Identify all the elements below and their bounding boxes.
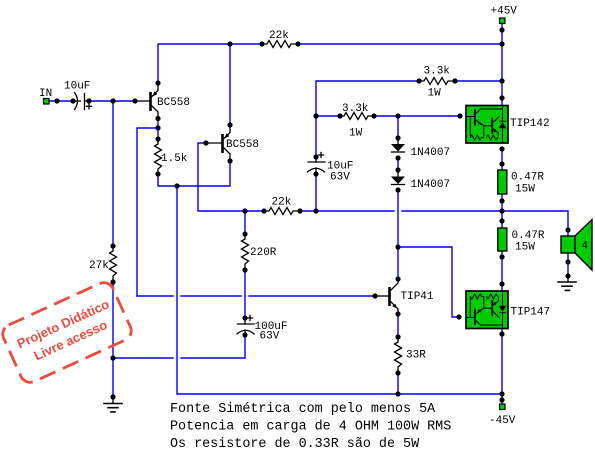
wire cap to Q1 base [89,100,135,102]
U1 T1 emitter [476,120,484,138]
svg-text:22k: 22k [269,30,289,42]
U1 T2 collector [493,116,500,123]
wire 10uF63V bottom to output [315,174,317,211]
wire D2 to TIP41 collector [397,190,399,279]
U2 internal resistor 1 [470,294,483,299]
node Q2 pins [227,122,232,127]
resistor R7 220R [242,234,249,270]
diode D1 triangle [391,144,405,152]
node output line dots [242,208,247,213]
node Q3 base [372,293,377,298]
svg-text:3.3k: 3.3k [424,66,451,78]
svg-text:4: 4 [582,241,589,253]
U2 left rise [469,297,471,318]
resistor R6 27k [110,246,117,282]
speaker LS1 box [561,236,575,253]
wire input to cap [49,100,73,102]
transistor Q2 collector [224,148,231,162]
transistor Q2 base bar [221,134,224,153]
wire diode D1 top lead [397,116,399,138]
svg-text:-45V: -45V [489,415,516,427]
svg-text:10uF: 10uF [64,81,90,93]
wire Q2 base to output line [198,143,264,211]
wire 33R to -45V rail [397,373,399,394]
transistor Q1 collector [152,106,159,119]
transistor Q2 emitter arrow (PNP) [224,133,229,138]
U2 diode bar [499,312,506,314]
node C2 pins [313,154,318,159]
speaker bottom ground stem [567,276,569,282]
capacitor C2 10uF 63V top lead [315,157,317,162]
U1 T2 arrow [493,129,497,133]
terminal IN green square [44,99,50,105]
transistor Q1 emitter [152,83,159,97]
capacitor C3 100uF 63V top lead [244,318,246,324]
U2 T2 emitter [493,297,498,306]
diode D2 cathode bar [392,184,405,186]
wire output y211 segment c [402,210,502,212]
svg-text:15W: 15W [515,184,535,196]
transistor Q2 BC558 base lead [206,142,221,144]
wire output node to 220R [244,211,246,234]
svg-text:Potencia em carga de 4 OHM 100: Potencia em carga de 4 OHM 100W RMS [170,420,451,435]
resistor R9 0.47R 15W body [498,170,507,194]
U1 diode bar [499,120,506,122]
svg-text:TIP41: TIP41 [401,291,434,303]
capacitor C1 lead right [85,100,90,102]
capacitor C1 plus sign [87,104,92,109]
transistor Q3 base bar [388,287,391,306]
node input dots [54,98,59,103]
U2 base entry [466,317,474,319]
svg-text:TIP142: TIP142 [510,118,550,130]
svg-text:Os resistore de 0.33R são de 5: Os resistore de 0.33R são de 5W [170,437,420,449]
svg-text:15W: 15W [515,242,535,254]
transistor Q1 BC558 base lead [135,100,149,102]
wire node A down x177 to -45V rail y394 [177,186,502,394]
U2 T1 collector [476,321,503,326]
wire TIP147 collector to -45V [501,329,503,404]
svg-text:1N4007: 1N4007 [411,179,451,191]
DARLINGTON U1 TIP142 box [466,106,508,144]
wire TIP142 emitter to 0.47R [501,149,503,170]
wire output y211 segment b [300,210,394,212]
U1 T1-T2 link [484,125,492,127]
svg-text:27k: 27k [89,260,109,272]
U2 T2 collector [493,312,500,319]
capacitor C3 curved plate [237,330,254,334]
transistor Q3 emitter [391,302,399,315]
transistor Q2 emitter [224,125,231,139]
wire riser x316 upper [316,81,419,157]
capacitor C1 curved plate [75,93,78,110]
capacitor C2 curved plate [308,168,325,172]
wire y296 segment a [137,295,173,297]
wire speaker bottom [567,253,569,276]
capacitor C3 straight plate [238,323,255,325]
wire 220R to 100uF [244,270,246,318]
U2 T1-T2 link [484,307,492,309]
resistor R5 1.5k [155,139,162,174]
U2 internal resistor 2 [486,294,497,299]
U1 base entry [466,116,474,118]
node y116 dots [313,113,318,118]
wire y358 segment a [113,357,173,359]
capacitor C1 straight plate [84,94,86,110]
U1 T1 collector [476,109,503,114]
diode D2 1N4007 leads [397,170,399,176]
svg-text:1.5k: 1.5k [161,153,188,165]
wire y358 segment b from 100uF [181,337,245,358]
node top rail dots [227,41,232,46]
node 3.3k upper pins [416,78,421,83]
DARLINGTON U2 TIP147 box [466,291,508,329]
wire 0.47R to output node [501,194,503,228]
capacitor C3 plus sign [248,316,253,321]
svg-text:0.47R: 0.47R [512,230,545,242]
node Q1 pins [155,80,160,85]
svg-text:IN: IN [39,88,52,100]
capacitor C2 bottom lead [315,168,317,174]
wire y116 left [316,115,340,117]
ground (speaker) line 1 [558,281,576,283]
wire 1.5k bottom to Q2 collector y186 [158,161,230,186]
capacitor C3 bottom lead [244,330,246,337]
svg-text:TIP147: TIP147 [511,307,551,319]
svg-text:BC558: BC558 [226,139,259,151]
resistor R1 22k (top rail) [262,41,298,48]
U2 T2 bar [491,300,493,317]
capacitor C1 10uF input lead left [73,100,81,102]
svg-text:BC558: BC558 [157,97,190,109]
resistor R10 0.47R 15W body [498,228,507,251]
svg-text:Fonte Simétrica com pelo menos: Fonte Simétrica com pelo menos 5A [170,402,436,417]
ground (left) line 3 [111,411,115,413]
ground (speaker) line 2 [562,285,572,287]
svg-text:+45V: +45V [491,6,518,18]
U2 T1 emitter [476,297,484,315]
U1 T2 emitter [493,129,498,138]
transistor Q3 collector [391,279,399,291]
transistor Q3 TIP41 base lead [375,295,388,297]
stamp dashed border [0,279,134,385]
U1 T1 arrow [478,121,482,125]
svg-text:63V: 63V [260,331,280,343]
U2 T1 bar [474,309,476,326]
wire Q1 collector to 1.5k x158 [157,119,159,140]
wire TIP41 collector to TIP147 base [398,247,459,317]
U1 left drop [469,117,471,138]
resistor R4 3.3k 1W (lower) [340,113,374,120]
wire base node down to 27k x113 [112,101,114,246]
resistor R2 22k (output to Q2 base line) [264,208,300,215]
svg-text:63V: 63V [330,172,350,184]
U1 T2 bar [491,118,493,135]
STAMP Projeto Didatico [0,279,134,385]
diode D1 cathode bar [392,151,405,153]
svg-text:1N4007: 1N4007 [411,147,451,159]
terminal +45V green square [500,18,506,24]
wire Q2 emitter riser x230 [229,44,231,125]
wire 3.3k upper right to +45V [455,80,502,82]
svg-text:33R: 33R [406,350,426,362]
wire +45V rail y44 left segment [158,44,262,83]
capacitor C2 plus sign [319,153,324,158]
U1 internal resistor 2 [486,135,497,140]
svg-text:3.3k: 3.3k [342,103,369,115]
wire output to speaker [502,211,568,236]
wire TIP41 emitter to 33R [397,314,399,337]
transistor Q3 emitter arrow (NPN) [392,304,397,309]
transistor Q1 emitter arrow (PNP) [152,91,157,96]
node U2 base pin [456,314,461,319]
transistor Q1 base bar [149,92,152,111]
svg-text:1W: 1W [428,88,442,100]
U1 T1 bar [474,109,476,126]
U2 T1 arrow [478,309,482,313]
ground (left) line 2 [108,407,118,409]
ground (left) line 1 [104,403,122,405]
wire 27k bottom to ground x113 [112,282,114,397]
wire +45V rail y44 right segment [298,43,502,45]
ground (left) stem [112,397,114,403]
ground (speaker) line 3 [566,289,570,291]
U2 T2 arrow [493,302,497,306]
wire D1 to D2 [397,158,399,170]
U1 internal resistor 1 [470,135,483,140]
terminal -45V green square [500,404,506,410]
U1 vertical through [502,106,504,143]
wire y296 segment c to TIP41 base [249,295,375,297]
resistor R8 33R [395,337,402,373]
svg-text:22k: 22k [272,197,292,209]
U1 diode triangle [499,122,506,128]
wire Q1 collector branch to TIP41 base via x137 [137,128,158,296]
diode D1 1N4007 leads [397,138,399,144]
node diode chain dots [395,135,400,140]
node A junction x177 [174,183,179,188]
svg-text:0.47R: 0.47R [511,172,544,184]
U2 diode triangle [499,306,506,312]
diode D2 triangle [391,177,405,185]
speaker LS1 cone [575,220,592,271]
svg-text:1W: 1W [349,128,363,140]
node x502 column dots [499,27,504,32]
wire 0.47R#2 to TIP147 [501,251,503,291]
U2 vertical through [502,292,504,329]
node 220R and C3 pins [242,231,247,236]
resistor R3 3.3k 1W (upper) [419,78,455,85]
wire +45V vertical x502 top [501,24,503,105]
capacitor C2 straight plate [308,161,325,163]
svg-text:220R: 220R [250,247,277,259]
node speaker pins [565,227,570,232]
wire y116 right to TIP142 base [374,115,460,117]
wire y296 segment b [181,295,241,297]
node 27k pins and ground leg [110,243,115,248]
